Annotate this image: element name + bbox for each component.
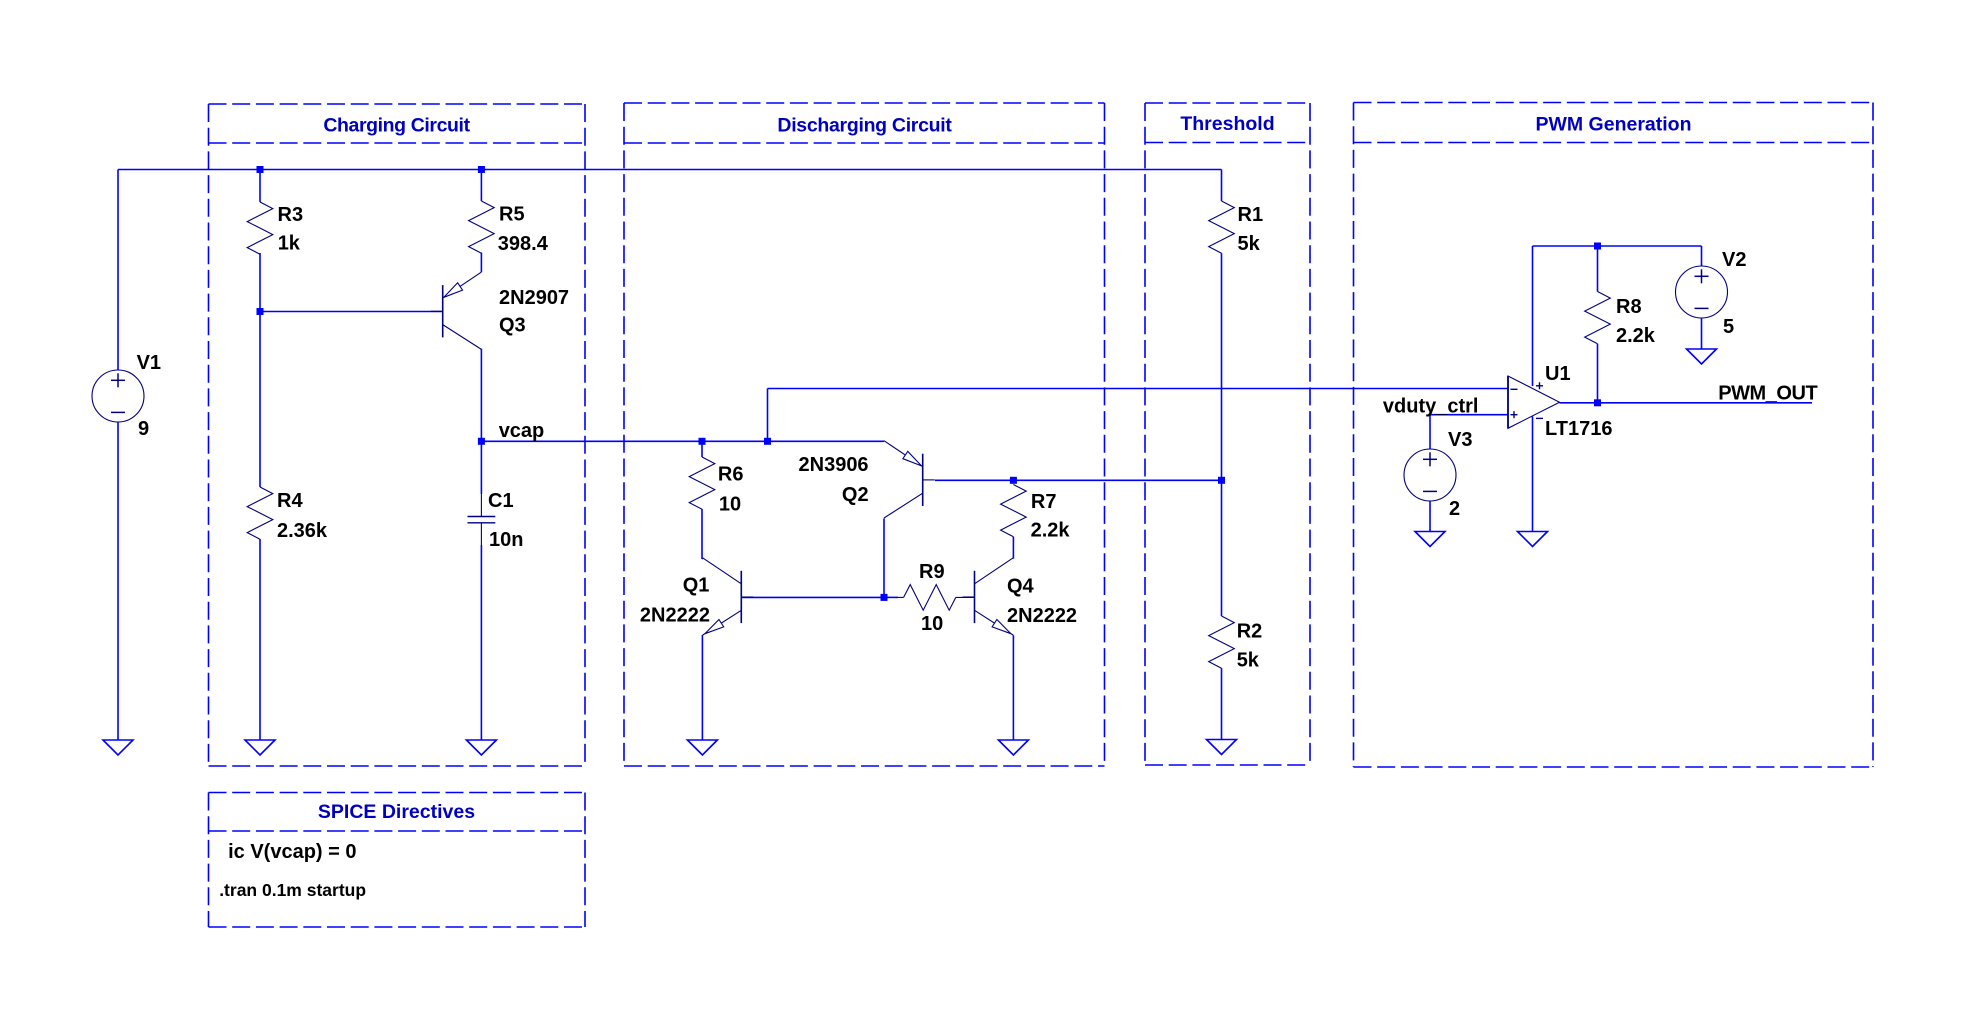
value R9 10 [921,613,943,635]
svg-text:2.2k: 2.2k [1031,520,1071,542]
ground U1 V- [1518,532,1548,547]
wire V2 top [1701,246,1703,266]
wire riser to comparator input [767,389,769,442]
svg-text:5k: 5k [1237,649,1260,671]
wire V2 bottom to ground [1701,318,1703,349]
wire R1 bottom to R2 [1221,253,1223,616]
svg-text:10: 10 [921,613,943,635]
wire R2 bottom to ground [1221,668,1223,739]
wire R4 bottom to ground [259,539,261,740]
wire R8 bottom to output [1597,344,1599,403]
label R8 [1616,296,1642,318]
wire R3 top [259,170,261,203]
node junction rail-R5 [478,166,485,173]
svg-text:R8: R8 [1616,296,1642,318]
svg-text:Q4: Q4 [1007,576,1035,598]
value R4 2.36k [277,520,328,542]
value R1 5k [1238,233,1261,255]
label R5 [499,204,525,226]
svg-text:R3: R3 [278,204,304,226]
ground V3 [1415,532,1445,547]
svg-text:vcap: vcap [499,420,545,442]
title Charging Circuit [323,115,470,137]
label V1 [137,352,161,374]
svg-text:R6: R6 [718,463,744,485]
svg-text:2N2907: 2N2907 [499,287,569,309]
title PWM Generation [1535,114,1691,136]
wire R1 top [1221,170,1223,202]
label Q4 type 2N2222 [1007,605,1077,627]
annotation box: SPICE Directives [209,793,586,928]
wire R8 top [1597,246,1599,292]
label Q3 type 2N2907 [499,287,569,309]
wire Q1 base to node [741,596,884,598]
label U1 [1545,363,1571,385]
resistor R3 [247,202,273,254]
svg-text:2N3906: 2N3906 [799,454,869,476]
label R9 [919,561,945,583]
wire C1 top [480,441,482,494]
title SPICE Directives [318,801,475,823]
value R3 1k [278,233,301,255]
svg-text:Threshold: Threshold [1180,113,1274,135]
annotation box: Discharging Circuit [624,103,1105,766]
label C1 [488,490,514,512]
svg-text:V2: V2 [1722,249,1746,271]
node junction Q1 base-R9-Q2 [881,594,888,601]
label Q1 type 2N2222 [640,604,710,626]
svg-text:2.2k: 2.2k [1616,325,1656,347]
wire comparator V+ stub [1532,246,1534,386]
ground Q1 emitter [687,740,717,755]
wire top supply rail [118,169,1222,171]
label net PWM_OUT [1718,382,1817,404]
voltage source V2 [1676,266,1728,318]
label V3 [1448,429,1472,451]
resistor R6 [689,457,715,509]
annotation box: Charging Circuit [209,104,586,766]
transistor Q3 (PNP 2N2907) [431,272,482,349]
svg-text:R2: R2 [1237,621,1263,643]
label Q3 [499,315,526,337]
ground Q4 emitter [998,740,1028,755]
wire node to R9 [884,596,898,598]
wire Q2 collector down [883,519,885,598]
resistor R7 [1001,485,1027,537]
svg-text:1k: 1k [278,233,301,255]
wire R5 top [480,170,482,202]
wire comparator output PWM_OUT [1560,402,1813,404]
label R7 [1031,491,1057,513]
node junction vcap-riser [764,438,771,445]
resistor R5 [469,201,495,253]
svg-text:R1: R1 [1238,204,1264,226]
wire comparator V- stub to ground [1532,417,1534,532]
wire net vcap horizontal [481,440,884,442]
svg-text:V3: V3 [1448,429,1472,451]
wire R6 bottom [701,509,703,559]
svg-text:10: 10 [719,493,741,515]
svg-text:PWM_OUT: PWM_OUT [1718,382,1817,404]
svg-text:Q2: Q2 [842,484,869,506]
capacitor C1 [468,494,496,545]
svg-text:R7: R7 [1031,491,1057,513]
label R2 [1237,621,1263,643]
wire V1 top [117,170,119,371]
label net vduty_ctrl [1383,396,1479,418]
wire R6 to Q1 collector corner [701,558,703,560]
resistor R4 [247,487,273,539]
node junction rail-R3 [257,166,264,173]
node junction threshold divider [1218,477,1225,484]
label R6 [718,463,744,485]
value V3 2 [1449,498,1460,520]
resistor R2 [1209,616,1235,668]
svg-text:R4: R4 [277,490,303,512]
wire Q3 base [260,311,443,313]
wire vcap to comparator minus input [768,388,1509,390]
svg-text:U1: U1 [1545,363,1571,385]
value R8 2.2k [1616,325,1656,347]
wire Q3 collector to vcap [480,349,482,442]
resistor R8 [1585,292,1611,344]
svg-text:9: 9 [138,418,149,440]
ground R2 [1207,740,1237,755]
value R5 398.4 [498,233,549,255]
node junction vcap-R6 [699,438,706,445]
value R6 10 [719,493,741,515]
svg-text:R9: R9 [919,561,945,583]
svg-text:5: 5 [1723,316,1734,338]
node junction R3-R4-base [257,308,264,315]
ground V1 [103,740,133,755]
annotation box: PWM Generation [1354,103,1874,768]
svg-text:2N2222: 2N2222 [640,604,710,626]
op-amp comparator U1 LT1716 [1508,376,1560,428]
svg-text:2: 2 [1449,498,1460,520]
ground C1 [466,740,496,755]
label net vcap [499,420,545,442]
svg-text:398.4: 398.4 [498,233,549,255]
label R3 [278,204,304,226]
label R4 [277,490,303,512]
svg-text:Charging Circuit: Charging Circuit [323,115,470,137]
node junction output-R8 [1594,399,1601,406]
title Discharging Circuit [777,115,952,137]
svg-text:Q1: Q1 [683,575,710,597]
ground R4 [245,740,275,755]
wire vduty_ctrl to comparator plus input [1430,414,1508,416]
wire V3 top [1429,415,1431,449]
wire R5 to Q3 emitter [480,253,482,273]
svg-text:.tran 0.1m startup: .tran 0.1m startup [219,880,366,900]
transistor Q4 (NPN 2N2222) [963,558,1014,635]
wire R6 top [701,441,703,457]
wire C1 bottom to ground [480,545,482,740]
voltage source V3 [1404,449,1456,501]
resistor R9 [898,585,975,611]
value V1 9 [138,418,149,440]
label Q4 [1007,576,1035,598]
svg-text:C1: C1 [488,490,514,512]
svg-text:Discharging Circuit: Discharging Circuit [777,115,952,137]
resistor R1 [1209,201,1235,253]
ground V2 [1687,349,1717,364]
label U1 type LT1716 [1545,418,1612,440]
wire V1 bottom to ground [117,422,119,740]
svg-text:V1: V1 [137,352,161,374]
svg-text:5k: 5k [1238,233,1261,255]
title Threshold [1180,113,1274,135]
value V2 5 [1723,316,1734,338]
svg-text:R5: R5 [499,204,525,226]
svg-text:PWM Generation: PWM Generation [1535,114,1691,136]
wire Q1 emitter to ground [701,635,703,740]
svg-text:10n: 10n [489,529,523,551]
value R7 2.2k [1031,520,1071,542]
wire Q2 base to threshold node [935,479,1222,481]
label Q2 type 2N3906 [799,454,869,476]
node vcap junction [478,438,485,445]
label R1 [1238,204,1264,226]
value C1 10n [489,529,523,551]
wire V3 bottom to ground [1429,501,1431,532]
svg-text:2.36k: 2.36k [277,520,328,542]
value R2 5k [1237,649,1260,671]
node junction base-R7 [1010,477,1017,484]
transistor Q2 (PNP 2N3906) [884,441,935,518]
transistor Q1 (NPN 2N2222) [703,558,754,635]
annotation box: Threshold [1145,103,1310,765]
svg-text:vduty_ctrl: vduty_ctrl [1383,396,1479,418]
wire R3 bottom to base node [259,253,261,312]
spice directive ic [228,841,356,863]
svg-text:LT1716: LT1716 [1545,418,1612,440]
wire R7 bottom [1012,537,1014,559]
node junction PWM rail-R8 [1594,243,1601,250]
svg-text:Q3: Q3 [499,315,526,337]
label V2 [1722,249,1746,271]
spice directive tran [219,880,366,900]
label Q1 [683,575,710,597]
wire Q4 emitter to ground [1012,635,1014,740]
voltage source V1 [92,370,144,422]
svg-text:SPICE Directives: SPICE Directives [318,801,475,823]
label Q2 [842,484,869,506]
svg-text:ic V(vcap) = 0: ic V(vcap) = 0 [228,841,356,863]
wire PWM top rail [1533,245,1702,247]
svg-text:2N2222: 2N2222 [1007,605,1077,627]
wire R4 top [259,312,261,488]
